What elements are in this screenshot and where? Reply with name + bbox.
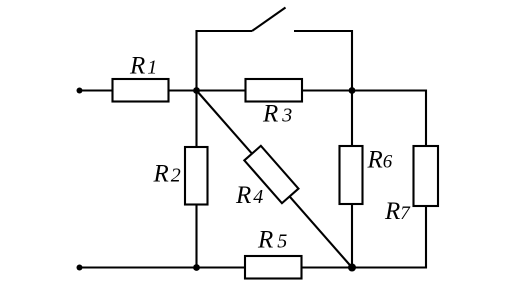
wire switch down to node B xyxy=(351,30,353,91)
node B junction dot xyxy=(349,87,356,94)
wire from left top terminal to R1 xyxy=(80,89,113,91)
svg-text:R3: R3 xyxy=(262,101,292,128)
wire right branch R7 vertical xyxy=(425,90,427,269)
svg-text:R2: R2 xyxy=(153,161,181,188)
left top terminal xyxy=(77,88,83,94)
wire R1 to node A and across to R3 xyxy=(168,89,246,91)
wire switch right lead xyxy=(294,30,353,32)
bottom right junction dot xyxy=(348,264,356,272)
wire diagonal through R4 from node A to bottom node xyxy=(197,91,353,268)
bottom left junction dot xyxy=(193,264,200,271)
wire R3 to right corner xyxy=(301,89,426,91)
svg-text:R7: R7 xyxy=(384,198,411,225)
svg-text:R5: R5 xyxy=(257,227,287,254)
left bottom terminal xyxy=(77,265,83,271)
resistor R4 xyxy=(244,146,298,203)
switch S blade xyxy=(252,8,286,32)
wire bottom from R5 to right corner xyxy=(302,266,427,268)
resistor R3 xyxy=(246,79,303,102)
resistor R1 xyxy=(113,79,169,102)
wire node B through R6 branch down to bottom node xyxy=(351,91,353,268)
wire node A down through R2 branch xyxy=(195,91,197,268)
resistor R6 xyxy=(340,146,363,204)
node A junction dot xyxy=(193,87,200,94)
resistor R5 xyxy=(245,256,302,279)
wire node A up to switch xyxy=(195,30,197,91)
wire switch left lead xyxy=(196,30,253,32)
resistor R7 xyxy=(414,146,439,206)
wire bottom from left terminal to R5 xyxy=(80,266,246,268)
resistor R2 xyxy=(185,147,208,205)
svg-text:R4: R4 xyxy=(235,182,263,209)
svg-text:R6: R6 xyxy=(367,147,393,174)
svg-text:R1: R1 xyxy=(129,53,157,80)
